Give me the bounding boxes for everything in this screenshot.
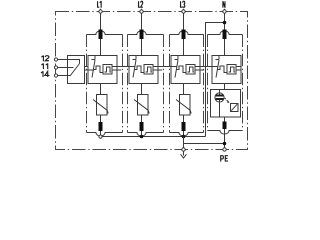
- module 3 box bottom edge with clamp bump: [170, 133, 204, 137]
- module 4 box top edge with clamp bump: [208, 31, 243, 35]
- label PE: [221, 156, 228, 162]
- terminal circle PE: [223, 148, 226, 151]
- label L1: [98, 1, 102, 8]
- wire L3 entry: [183, 9, 185, 10]
- wire module 3 to bus: [183, 131, 185, 137]
- node PE junction dot: [223, 142, 227, 146]
- varistor R1 (module 1): [93, 84, 108, 123]
- wire N branch to trigger/bus riser: [206, 23, 225, 137]
- node N junction dot: [223, 21, 227, 25]
- remote signalling contact FM: [68, 56, 85, 84]
- wire trigger stub module 1: [117, 69, 121, 71]
- label L3: [181, 1, 185, 7]
- module 3 box top edge with clamp bump: [170, 31, 204, 35]
- wire trigger link module 3 to module 4: [200, 66, 212, 68]
- wire PE link: [184, 143, 225, 145]
- spark gap U1 (module 1): [88, 56, 117, 84]
- wire GDT to bottom terminal: [224, 117, 226, 122]
- terminal circle L3: [182, 10, 185, 13]
- device enclosure dash-dot border: [56, 12, 248, 150]
- wire FM leads: [58, 59, 68, 61]
- wire module 3 to earth terminal: [183, 137, 185, 148]
- terminal clamp N top: [223, 30, 227, 40]
- wire trigger link FM to module 1: [85, 66, 89, 68]
- terminal circle L1: [99, 10, 102, 13]
- spark gap U3 (module 3): [171, 56, 200, 84]
- label 12: [41, 56, 48, 62]
- module 4 box bottom edge with clamp bump: [208, 131, 243, 135]
- terminal clamp L3 top: [182, 30, 186, 40]
- terminal clamp module 3 bottom: [182, 122, 186, 131]
- wire L1 entry: [100, 9, 102, 10]
- terminal circle 11: [54, 66, 57, 69]
- wire trigger link module 2 to module 3: [158, 66, 171, 68]
- node bus junction module 2: [140, 135, 144, 139]
- wire trigger link module 1 to module 2: [117, 66, 129, 68]
- earth electrode arrow: [181, 151, 187, 158]
- module 3 box sides (dash-dot): [170, 35, 204, 133]
- spark gap U2 (module 2): [129, 56, 158, 84]
- module 2 box sides (dash-dot): [128, 35, 164, 133]
- plug contact circle module 1: [99, 135, 102, 138]
- wire trigger stub module 2: [158, 69, 162, 71]
- wire module 4 to PE terminal: [224, 129, 226, 148]
- wire module 1 to bus: [100, 131, 102, 137]
- wire bottom bus: [101, 136, 206, 138]
- wire N entry: [224, 9, 226, 10]
- terminal clamp module 4 bottom: [223, 122, 227, 130]
- terminal circle L2: [140, 10, 143, 13]
- module 2 box bottom edge with clamp bump: [128, 133, 164, 137]
- terminal clamp L2 top: [140, 30, 144, 40]
- gas discharge tube F1 (module 4): [211, 84, 241, 118]
- wire module 2 to bus: [141, 131, 143, 137]
- wire L1 terminal to spark gap: [100, 39, 102, 56]
- terminal circle 12: [54, 58, 57, 61]
- label N: [223, 1, 225, 8]
- label L2: [139, 1, 143, 7]
- terminal circle earth: [182, 148, 185, 151]
- terminal clamp module 2 bottom: [140, 122, 144, 131]
- spark gap U4 (module 4 N-PE): [212, 56, 241, 84]
- wire L2 terminal to spark gap: [141, 39, 143, 56]
- varistor R2 (module 2): [134, 84, 149, 123]
- varistor R3 (module 3): [176, 84, 191, 123]
- node bus junction module 3: [182, 135, 186, 139]
- module 2 box top edge with clamp bump: [128, 31, 164, 35]
- wire L3 terminal to spark gap: [183, 39, 185, 56]
- terminal circle N: [223, 10, 226, 13]
- wire trigger stub module 3: [200, 69, 204, 71]
- module 1 box bottom edge with clamp bump: [87, 133, 123, 136]
- wire L2 entry: [141, 9, 143, 10]
- isolating spark gap box (module 4): [231, 104, 239, 112]
- module 1 box sides (dash-dot): [87, 35, 123, 133]
- label 14: [41, 71, 49, 77]
- terminal clamp module 1 bottom: [99, 122, 103, 131]
- label 11: [41, 63, 47, 69]
- module 4 box sides (dash-dot): [208, 35, 243, 131]
- module 1 box top edge with clamp bump: [87, 31, 123, 35]
- trigger arrow (module 4): [225, 98, 230, 103]
- wire N terminal to spark gap: [224, 39, 226, 56]
- terminal clamp L1 top: [99, 30, 103, 40]
- terminal circle 14: [54, 74, 57, 77]
